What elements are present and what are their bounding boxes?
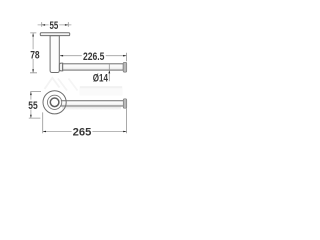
dim 226.5: dimension line	[60, 55, 126, 57]
dim 265: left arrow	[43, 131, 46, 133]
flange outer circle (plan view)	[43, 91, 66, 114]
svg-text:226.5: 226.5	[83, 51, 105, 63]
dim 55 left: top arrow	[30, 92, 32, 95]
dim 265: extension lines	[43, 108, 127, 133]
dim 78: bottom arrow	[32, 69, 34, 72]
svg-text:265: 265	[73, 127, 92, 139]
dim 55 left: bottom arrow	[30, 115, 32, 118]
dim 55 top: right arrow	[65, 24, 68, 26]
dim 226.5: left arrow	[60, 55, 63, 57]
end cap (plan view)	[123, 99, 126, 108]
dim 265: dimension line	[43, 131, 127, 133]
wall plate (side view)	[40, 33, 69, 36]
end cap (side view)	[123, 62, 127, 72]
watermark chevron	[45, 78, 60, 89]
dim 78: dimension line	[32, 33, 34, 73]
dim 226.5: right arrow	[123, 55, 126, 57]
post (side view)	[50, 36, 59, 73]
dim 226.5: right extension line	[126, 53, 128, 61]
post ring outer circle (plan view)	[47, 95, 61, 109]
dim 55 left: extension ticks	[29, 92, 41, 119]
dim 78: top arrow	[32, 33, 34, 36]
dim 55 left: dimension line	[30, 92, 32, 118]
dim 55 top: left arrow	[42, 24, 45, 26]
dim 55 top: dimension line	[38, 24, 72, 26]
dim 265: right arrow	[123, 131, 126, 133]
svg-text:Ø14: Ø14	[93, 72, 108, 84]
svg-text:55: 55	[28, 100, 38, 112]
svg-text:55: 55	[50, 20, 59, 32]
leader line Ø14	[108, 64, 110, 81]
arm collar (side view)	[59, 63, 62, 71]
post ring inner circle (plan view)	[50, 98, 59, 107]
dim 78: extension ticks	[30, 33, 37, 73]
arm tube shading (plan view)	[61, 101, 124, 106]
dim 55 top: extension ticks	[42, 22, 69, 27]
leader Ø14 arrow	[108, 70, 110, 73]
watermark band	[80, 86, 123, 95]
arm tube (plan view)	[60, 101, 123, 106]
arm tube (side view)	[63, 64, 124, 70]
svg-text:78: 78	[30, 49, 39, 61]
arm shadow (plan view)	[62, 107, 121, 110]
